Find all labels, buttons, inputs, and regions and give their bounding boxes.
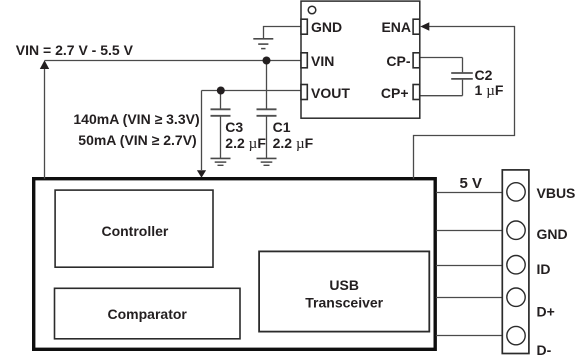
svg-text:140mA (VIN ≥ 3.3V): 140mA (VIN ≥ 3.3V) bbox=[73, 111, 199, 127]
svg-text:5 V: 5 V bbox=[460, 175, 483, 192]
svg-text:D+: D+ bbox=[537, 304, 555, 320]
svg-text:D-: D- bbox=[537, 342, 552, 358]
svg-text:Controller: Controller bbox=[101, 223, 168, 239]
svg-text:Comparator: Comparator bbox=[108, 306, 188, 322]
svg-text:ENA: ENA bbox=[381, 19, 411, 35]
svg-text:C1: C1 bbox=[273, 119, 291, 135]
svg-text:C3: C3 bbox=[225, 119, 243, 135]
svg-text:CP-: CP- bbox=[386, 53, 410, 69]
svg-text:VIN: VIN bbox=[311, 53, 334, 69]
svg-text:C2: C2 bbox=[475, 67, 493, 83]
svg-text:CP+: CP+ bbox=[381, 85, 409, 101]
svg-text:USB: USB bbox=[329, 277, 359, 293]
svg-text:2.2 µF: 2.2 µF bbox=[225, 135, 266, 152]
svg-text:50mA (VIN ≥ 2.7V): 50mA (VIN ≥ 2.7V) bbox=[78, 132, 196, 148]
svg-text:VOUT: VOUT bbox=[311, 85, 350, 101]
svg-text:GND: GND bbox=[537, 226, 568, 242]
svg-text:VIN = 2.7 V - 5.5 V: VIN = 2.7 V - 5.5 V bbox=[16, 42, 134, 58]
svg-text:GND: GND bbox=[311, 19, 342, 35]
svg-text:1 µF: 1 µF bbox=[475, 82, 504, 99]
svg-text:ID: ID bbox=[537, 261, 551, 277]
svg-text:2.2 µF: 2.2 µF bbox=[273, 135, 314, 152]
svg-text:Transceiver: Transceiver bbox=[305, 294, 383, 310]
svg-text:VBUS: VBUS bbox=[537, 185, 576, 201]
